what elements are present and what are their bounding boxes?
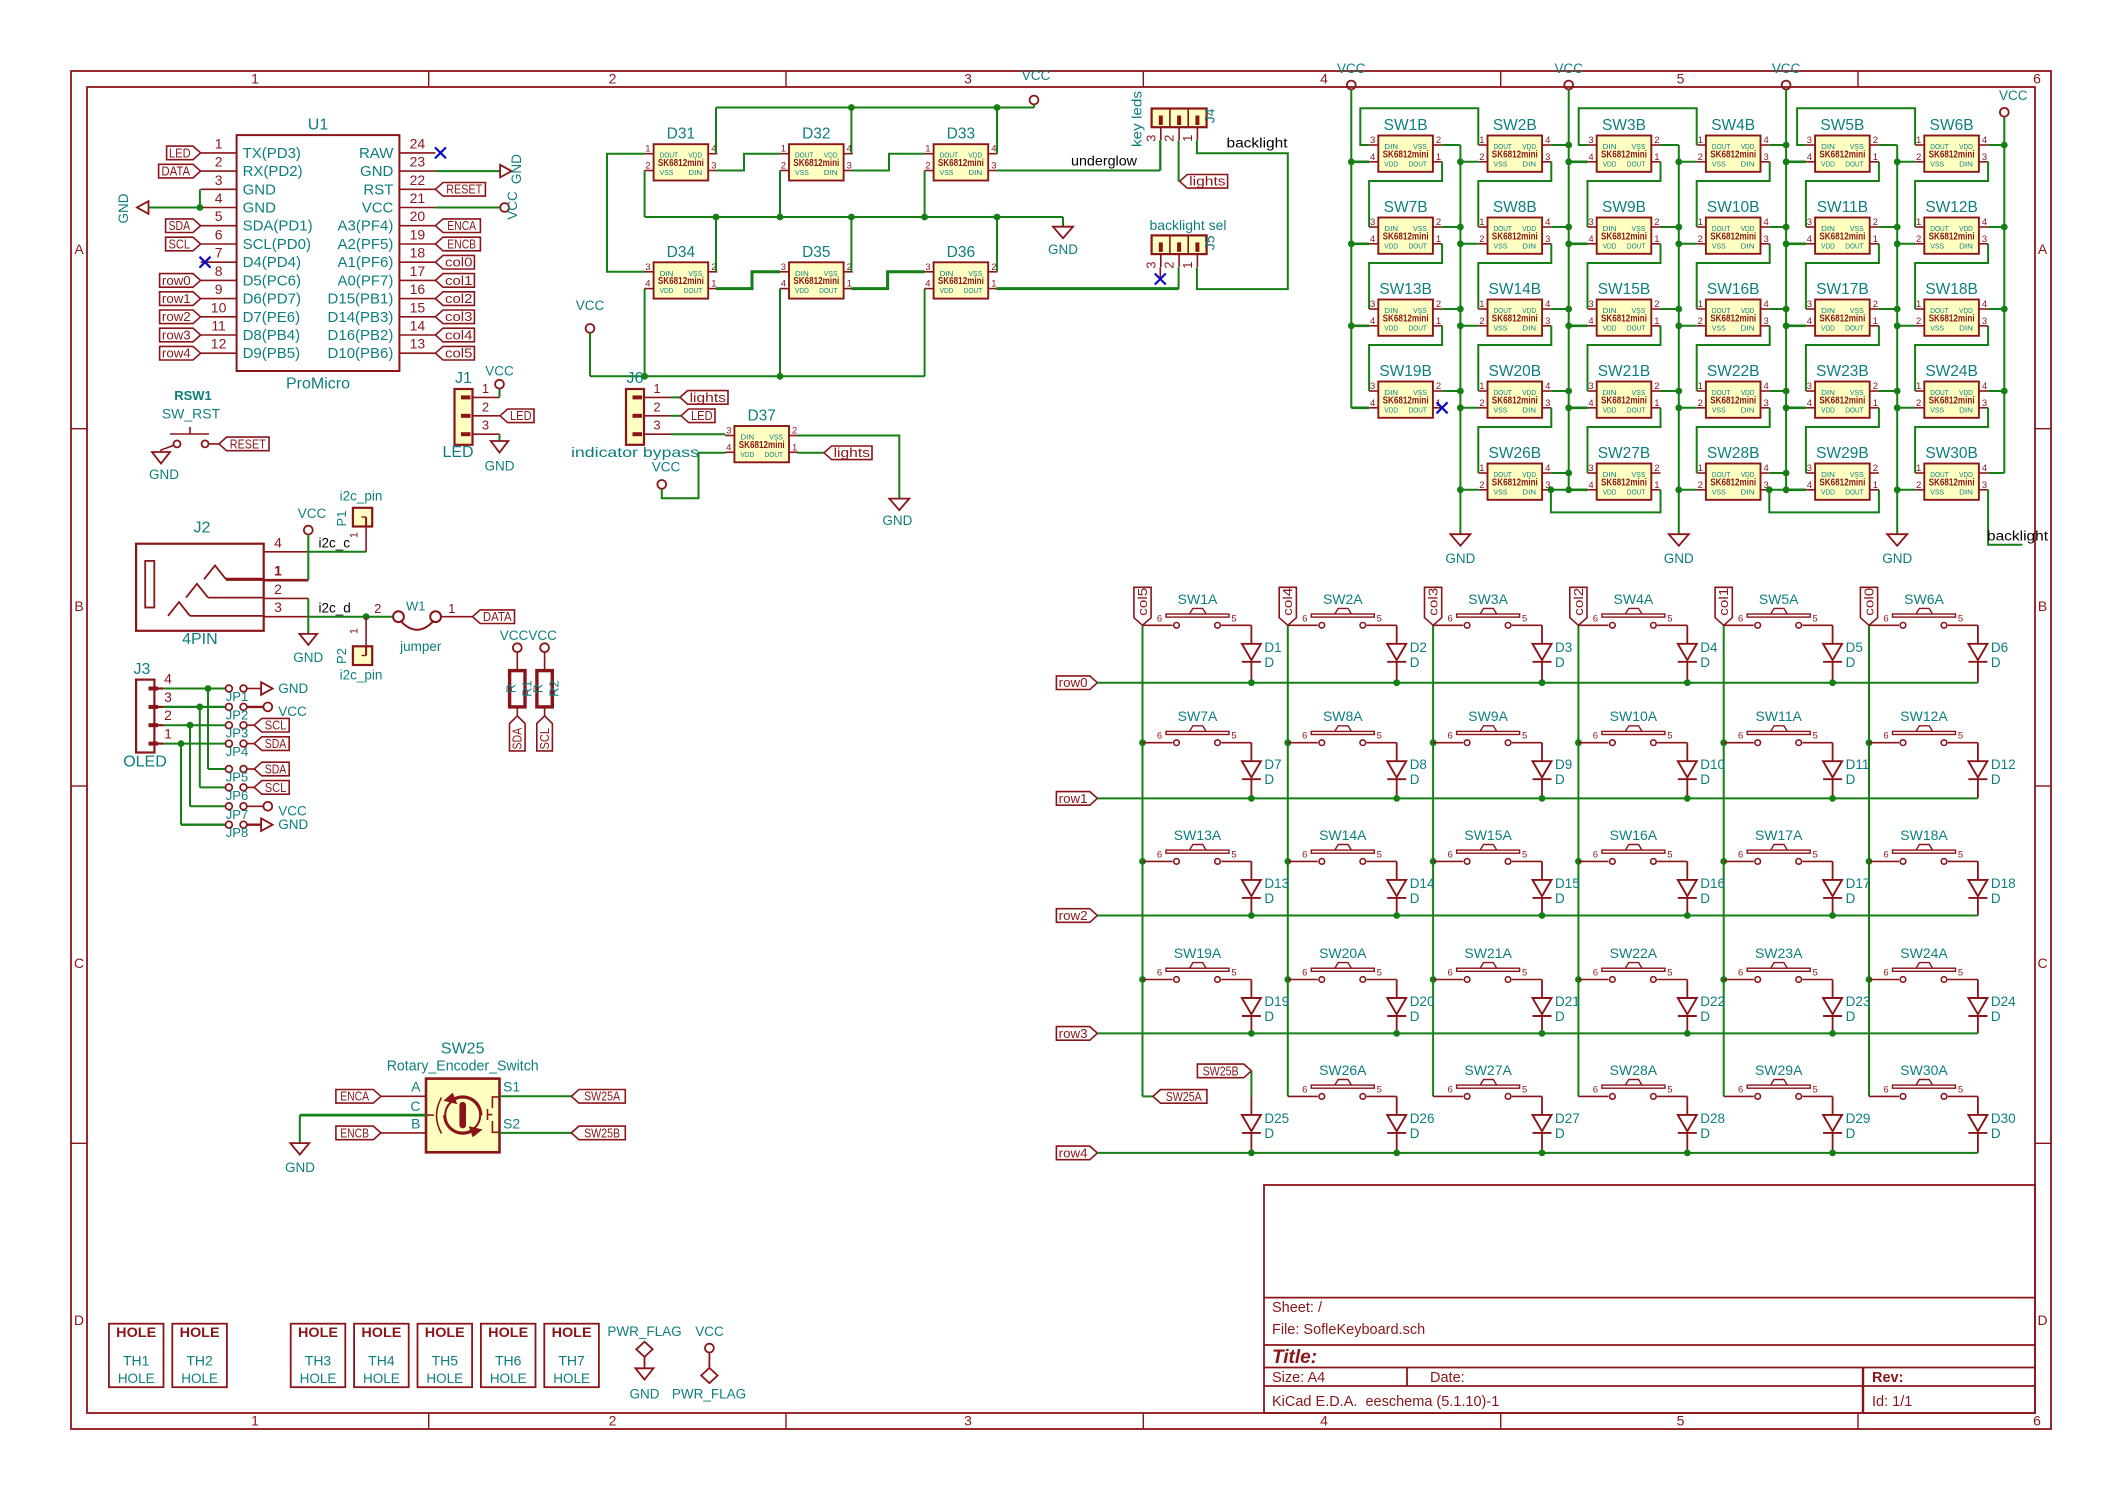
svg-text:DIN: DIN bbox=[1522, 159, 1536, 168]
wire SW26B DOUT to SW20B DIN bbox=[1478, 408, 1551, 473]
svg-text:SDA: SDA bbox=[169, 218, 191, 233]
junction row2 D16 bbox=[1684, 912, 1691, 919]
svg-text:4: 4 bbox=[1588, 234, 1593, 245]
wire U1 pin21 to VCC bbox=[435, 207, 500, 209]
svg-text:1: 1 bbox=[792, 442, 797, 453]
svg-text:Size: A4: Size: A4 bbox=[1272, 1370, 1325, 1386]
svg-text:DOUT: DOUT bbox=[1627, 405, 1646, 414]
svg-text:D24: D24 bbox=[1991, 994, 2016, 1009]
LED SW23B bbox=[1815, 382, 1870, 418]
junction GND rail3 SW6B bbox=[1894, 158, 1901, 165]
wire SW30B DOUT to SW24B DIN bbox=[1915, 408, 1988, 473]
svg-text:DOUT: DOUT bbox=[964, 286, 983, 295]
svg-text:R2: R2 bbox=[547, 680, 562, 697]
svg-text:D35: D35 bbox=[802, 244, 830, 261]
svg-text:18: 18 bbox=[410, 245, 426, 261]
wire SW29B DOUT to SW28B DIN bbox=[1769, 490, 1879, 513]
switch SW23A bbox=[1724, 979, 1754, 981]
svg-text:SW16B: SW16B bbox=[1707, 281, 1760, 298]
svg-text:6: 6 bbox=[1738, 731, 1743, 742]
junction VCC rail4 SW18B bbox=[2001, 306, 2008, 313]
svg-text:1: 1 bbox=[1873, 316, 1878, 327]
svg-text:4: 4 bbox=[1370, 398, 1375, 409]
svg-text:D: D bbox=[1991, 655, 2001, 670]
junction row3 D23 bbox=[1829, 1030, 1836, 1037]
svg-text:VDD: VDD bbox=[1603, 487, 1617, 496]
svg-text:D7(PE6): D7(PE6) bbox=[243, 309, 301, 326]
switch SW9A bbox=[1433, 742, 1463, 744]
wire D36 VDD bbox=[924, 289, 926, 377]
wire D33 VDD bbox=[996, 108, 998, 154]
wire SW8B DOUT to SW2B DIN bbox=[1478, 162, 1551, 227]
svg-text:6: 6 bbox=[1593, 613, 1598, 624]
svg-text:SW6A: SW6A bbox=[1904, 591, 1944, 607]
junction row0 D4 bbox=[1684, 679, 1691, 686]
svg-text:SW15A: SW15A bbox=[1464, 827, 1512, 843]
wire SW22B VDD bbox=[1770, 390, 1786, 392]
svg-text:1: 1 bbox=[349, 628, 361, 634]
wire J4 pin2 to lights bbox=[1178, 140, 1180, 181]
svg-text:3: 3 bbox=[1764, 152, 1769, 163]
svg-text:3: 3 bbox=[645, 262, 650, 273]
svg-text:1: 1 bbox=[1916, 217, 1921, 228]
wire SW21B VSS bbox=[1661, 390, 1679, 392]
wire column col5 bbox=[1142, 625, 1144, 1096]
junction GND rail1 SW8B bbox=[1457, 240, 1464, 247]
svg-text:2: 2 bbox=[1698, 398, 1703, 409]
svg-text:6: 6 bbox=[1738, 849, 1743, 860]
diode D4 bbox=[1686, 625, 1688, 644]
svg-text:D20: D20 bbox=[1410, 994, 1435, 1009]
svg-text:6: 6 bbox=[1593, 731, 1598, 742]
svg-text:TH6: TH6 bbox=[495, 1353, 522, 1369]
wire SW17B VSS bbox=[1879, 308, 1897, 310]
svg-text:R: R bbox=[503, 684, 518, 693]
LED SW29B bbox=[1815, 464, 1870, 500]
diode D1 bbox=[1250, 625, 1252, 644]
svg-text:LED: LED bbox=[510, 408, 532, 423]
wire SW18B DOUT to SW12B DIN bbox=[1915, 244, 1988, 309]
global label col3 (U1 pin15) bbox=[435, 310, 474, 324]
connector J3 OLED body bbox=[136, 680, 154, 753]
wire SW1B VDD bbox=[1351, 161, 1369, 164]
wire row1 bbox=[1097, 797, 1977, 799]
global label lights (J4 pin2) bbox=[1180, 175, 1228, 189]
svg-text:VSS: VSS bbox=[1930, 323, 1944, 332]
svg-text:4: 4 bbox=[1764, 381, 1769, 392]
svg-text:D29: D29 bbox=[1846, 1111, 1871, 1126]
connector J5 (backlight sel) bbox=[1152, 235, 1207, 254]
svg-text:13: 13 bbox=[410, 336, 426, 352]
no-connect SW19B DOUT bbox=[1437, 402, 1448, 413]
junction row1 D10 bbox=[1684, 795, 1691, 802]
U1 pin 22 RST bbox=[399, 188, 435, 190]
J2 pin 4 bbox=[264, 551, 309, 553]
svg-text:key leds: key leds bbox=[1129, 91, 1145, 147]
svg-text:VDD: VDD bbox=[1821, 159, 1835, 168]
svg-text:DIN: DIN bbox=[1522, 241, 1536, 250]
svg-text:2: 2 bbox=[1436, 135, 1441, 146]
wire SW12B VSS bbox=[1897, 243, 1915, 245]
wire JP1 to GND bbox=[247, 688, 261, 690]
global label col2 (matrix top) bbox=[1570, 587, 1587, 625]
junction SW26B DIN bbox=[1548, 486, 1555, 493]
svg-text:VDD: VDD bbox=[1603, 241, 1617, 250]
svg-text:1: 1 bbox=[448, 601, 455, 616]
global label col3 (matrix top) bbox=[1425, 587, 1442, 625]
svg-text:6: 6 bbox=[1157, 613, 1162, 624]
svg-text:DOUT: DOUT bbox=[819, 286, 838, 295]
svg-text:underglow: underglow bbox=[1071, 154, 1137, 169]
svg-text:LED: LED bbox=[169, 145, 191, 160]
svg-text:DIN: DIN bbox=[1959, 159, 1973, 168]
svg-text:6: 6 bbox=[1593, 1084, 1598, 1095]
wire D33 VSS bbox=[924, 171, 926, 218]
svg-text:4: 4 bbox=[215, 190, 223, 206]
svg-text:D: D bbox=[1264, 1126, 1274, 1141]
svg-text:SW30A: SW30A bbox=[1900, 1062, 1948, 1078]
global label DATA (U1 pin2) bbox=[159, 164, 201, 178]
J3 pin 4 bbox=[149, 687, 159, 691]
wire SW20B VSS bbox=[1460, 407, 1478, 409]
svg-text:GND: GND bbox=[278, 817, 308, 832]
svg-text:D: D bbox=[1991, 772, 2001, 787]
LED SW1B bbox=[1378, 136, 1433, 172]
svg-text:21: 21 bbox=[410, 190, 426, 206]
svg-text:1: 1 bbox=[1436, 316, 1441, 327]
svg-text:5: 5 bbox=[1667, 613, 1672, 624]
svg-text:6: 6 bbox=[1302, 1084, 1307, 1095]
svg-text:4: 4 bbox=[1764, 299, 1769, 310]
svg-text:D10: D10 bbox=[1700, 757, 1725, 772]
svg-text:DOUT: DOUT bbox=[1627, 159, 1646, 168]
junction D32 VDD bbox=[848, 104, 855, 111]
wire SW10B DOUT to SW4B DIN bbox=[1697, 162, 1770, 227]
svg-text:VCC: VCC bbox=[485, 364, 514, 379]
svg-text:A: A bbox=[74, 241, 84, 257]
svg-text:HOLE: HOLE bbox=[552, 1325, 592, 1340]
power GND (SW25 C) bbox=[290, 1143, 309, 1155]
wire SW15B VDD bbox=[1569, 324, 1588, 327]
wire VCC bus top row bbox=[716, 107, 1034, 109]
svg-text:2: 2 bbox=[1654, 299, 1659, 310]
wire SW30B VSS bbox=[1897, 489, 1915, 491]
svg-text:GND: GND bbox=[149, 467, 179, 482]
junction row4 D25 bbox=[1248, 1150, 1255, 1157]
svg-text:VSS: VSS bbox=[1930, 241, 1944, 250]
svg-text:TH3: TH3 bbox=[305, 1353, 332, 1369]
wire SW19B VDD bbox=[1351, 406, 1369, 409]
svg-text:D19: D19 bbox=[1264, 994, 1289, 1009]
svg-text:VDD: VDD bbox=[1821, 241, 1835, 250]
svg-text:row4: row4 bbox=[1059, 1145, 1088, 1160]
svg-text:SDA(PD1): SDA(PD1) bbox=[243, 218, 313, 235]
junction J3 pin 3 bbox=[196, 704, 203, 711]
U1 pin 11 D8(PB4) bbox=[201, 334, 237, 336]
switch SW11A bbox=[1724, 742, 1754, 744]
jumper JP6 bbox=[226, 784, 233, 791]
svg-text:2: 2 bbox=[645, 161, 650, 172]
svg-text:Id: 1/1: Id: 1/1 bbox=[1872, 1394, 1912, 1410]
svg-text:TH7: TH7 bbox=[558, 1353, 585, 1369]
svg-text:D37: D37 bbox=[747, 408, 775, 425]
svg-text:4: 4 bbox=[1807, 398, 1812, 409]
switch SW14A bbox=[1288, 860, 1318, 862]
svg-text:VSS: VSS bbox=[940, 168, 954, 177]
svg-text:1: 1 bbox=[847, 279, 852, 290]
svg-text:VSS: VSS bbox=[1930, 159, 1944, 168]
svg-text:SW7A: SW7A bbox=[1178, 708, 1218, 724]
svg-text:C: C bbox=[410, 1098, 420, 1114]
svg-text:SW1B: SW1B bbox=[1384, 117, 1428, 134]
svg-text:1: 1 bbox=[251, 71, 259, 87]
svg-text:col0: col0 bbox=[445, 255, 472, 270]
junction GND rail1 SW26B bbox=[1457, 486, 1464, 493]
svg-text:VDD: VDD bbox=[1821, 323, 1835, 332]
switch SW1A bbox=[1143, 624, 1173, 626]
svg-text:1: 1 bbox=[1479, 463, 1484, 474]
svg-text:col2: col2 bbox=[1571, 588, 1586, 616]
svg-text:2: 2 bbox=[1162, 135, 1177, 142]
svg-text:3: 3 bbox=[1370, 217, 1375, 228]
svg-text:2: 2 bbox=[1479, 398, 1484, 409]
global label col4 (U1 pin14) bbox=[435, 328, 474, 342]
svg-text:JP2: JP2 bbox=[226, 707, 248, 722]
global label ENCB bbox=[336, 1126, 381, 1140]
power GND (J1 pin3) bbox=[491, 441, 509, 453]
svg-text:indicator bypass: indicator bypass bbox=[571, 444, 699, 460]
svg-text:2: 2 bbox=[1479, 234, 1484, 245]
svg-text:D5(PC6): D5(PC6) bbox=[243, 272, 301, 289]
svg-text:SW26B: SW26B bbox=[1489, 445, 1542, 462]
svg-text:6: 6 bbox=[1883, 1084, 1888, 1095]
U1 pin 4 GND bbox=[201, 207, 237, 209]
diode D15 bbox=[1541, 861, 1543, 880]
svg-text:TX(PD3): TX(PD3) bbox=[243, 145, 301, 162]
junction VCC rail1 r1 bbox=[1348, 240, 1355, 247]
svg-text:D8: D8 bbox=[1410, 757, 1427, 772]
U1 pin 3 GND bbox=[201, 188, 237, 190]
svg-text:3: 3 bbox=[1807, 135, 1812, 146]
svg-text:14: 14 bbox=[410, 318, 426, 334]
switch SW13A bbox=[1143, 860, 1173, 862]
LED SW26B bbox=[1488, 464, 1543, 500]
svg-text:1: 1 bbox=[1698, 135, 1703, 146]
global label SCL (R2) bbox=[537, 716, 553, 751]
svg-text:VDD: VDD bbox=[795, 286, 809, 295]
svg-text:5: 5 bbox=[1377, 968, 1382, 979]
wire GND rail 2 bbox=[1678, 145, 1680, 534]
svg-text:row1: row1 bbox=[1059, 791, 1088, 806]
svg-text:2: 2 bbox=[1698, 234, 1703, 245]
svg-text:VDD: VDD bbox=[1821, 405, 1835, 414]
wire J1 pin1 to VCC bbox=[499, 396, 501, 398]
svg-text:1: 1 bbox=[1654, 152, 1659, 163]
junction J3 pin 4 bbox=[205, 685, 212, 692]
resistor R1 bbox=[510, 671, 525, 707]
svg-text:4: 4 bbox=[991, 144, 996, 155]
svg-text:A3(PF4): A3(PF4) bbox=[338, 218, 394, 235]
svg-text:SW1A: SW1A bbox=[1178, 591, 1218, 607]
svg-text:3: 3 bbox=[925, 262, 930, 273]
power VCC (B-grid rail 3) bbox=[1782, 81, 1791, 90]
mount hole TH2 bbox=[172, 1324, 227, 1388]
svg-text:5: 5 bbox=[1522, 1084, 1527, 1095]
wire SW2B VDD bbox=[1551, 144, 1568, 146]
wire VCC down to J2 pin1 bbox=[307, 535, 309, 581]
power VCC (B-grid rail 4) bbox=[2000, 108, 2009, 117]
svg-text:3: 3 bbox=[964, 1413, 972, 1429]
diode D23 bbox=[1832, 980, 1834, 999]
LED SW18B bbox=[1924, 300, 1979, 336]
svg-text:GND: GND bbox=[116, 193, 131, 223]
svg-text:3: 3 bbox=[1588, 217, 1593, 228]
wire D33 DIN to J4 underglow bbox=[996, 170, 1160, 172]
svg-text:row0: row0 bbox=[1059, 675, 1088, 690]
diode D21 bbox=[1541, 980, 1543, 999]
switch SW4A bbox=[1578, 624, 1608, 626]
U1 pin 23 GND bbox=[399, 170, 435, 172]
svg-text:C: C bbox=[74, 955, 84, 971]
wire SW14B VSS bbox=[1460, 325, 1478, 327]
svg-text:6: 6 bbox=[1157, 849, 1162, 860]
svg-text:C: C bbox=[2037, 955, 2047, 971]
svg-text:D: D bbox=[1846, 772, 1856, 787]
svg-text:SW9B: SW9B bbox=[1602, 199, 1646, 216]
svg-text:3: 3 bbox=[1588, 299, 1593, 310]
svg-text:1: 1 bbox=[1698, 299, 1703, 310]
svg-text:D: D bbox=[1700, 1126, 1710, 1141]
junction VCC rail4 SW6B bbox=[2001, 142, 2008, 149]
svg-text:3: 3 bbox=[653, 418, 660, 433]
svg-text:SW12B: SW12B bbox=[1925, 199, 1978, 216]
U1 pin 9 D6(PD7) bbox=[201, 298, 237, 300]
svg-text:2: 2 bbox=[1916, 316, 1921, 327]
svg-text:5: 5 bbox=[1522, 731, 1527, 742]
wire SW27B DOUT to SW26B DIN bbox=[1551, 490, 1661, 513]
wire SW15B VSS bbox=[1661, 308, 1679, 310]
wire SW30B DIN backlight bbox=[1988, 490, 2022, 545]
junction GND rail3 SW24B bbox=[1894, 404, 1901, 411]
switch SW18A bbox=[1869, 860, 1899, 862]
svg-text:B: B bbox=[2038, 598, 2047, 614]
wire D33 DOUT to D32 DIN bbox=[851, 154, 924, 171]
svg-text:1: 1 bbox=[1654, 316, 1659, 327]
svg-text:2: 2 bbox=[215, 154, 223, 170]
svg-text:3: 3 bbox=[1764, 316, 1769, 327]
svg-text:DIN: DIN bbox=[1959, 487, 1973, 496]
svg-text:2: 2 bbox=[1916, 480, 1921, 491]
svg-text:HOLE: HOLE bbox=[363, 1371, 400, 1386]
diode D26 bbox=[1396, 1096, 1398, 1115]
junction col1 row3 bbox=[1720, 976, 1727, 983]
switch SW20A bbox=[1288, 979, 1318, 981]
svg-text:SW11B: SW11B bbox=[1817, 199, 1868, 216]
svg-text:2: 2 bbox=[609, 1413, 617, 1429]
svg-text:ENCB: ENCB bbox=[340, 1125, 369, 1140]
svg-text:HOLE: HOLE bbox=[553, 1371, 590, 1386]
svg-text:SW22B: SW22B bbox=[1707, 363, 1760, 380]
svg-text:1: 1 bbox=[1654, 398, 1659, 409]
wire SW9B VSS bbox=[1661, 226, 1679, 228]
svg-text:4: 4 bbox=[1982, 135, 1987, 146]
svg-text:5: 5 bbox=[1958, 613, 1963, 624]
svg-text:3: 3 bbox=[1807, 463, 1812, 474]
svg-text:SW20B: SW20B bbox=[1489, 363, 1542, 380]
wire JP5 to SDA bbox=[247, 768, 254, 770]
svg-text:RAW: RAW bbox=[359, 145, 394, 162]
LED D34 bbox=[654, 262, 709, 298]
svg-text:6: 6 bbox=[1447, 849, 1452, 860]
svg-text:SW7B: SW7B bbox=[1384, 199, 1428, 216]
svg-text:i2c_c: i2c_c bbox=[319, 536, 351, 551]
svg-text:1: 1 bbox=[1479, 299, 1484, 310]
svg-text:3: 3 bbox=[164, 689, 172, 705]
svg-text:4: 4 bbox=[1764, 463, 1769, 474]
wire JP8 to GND bbox=[247, 824, 261, 826]
svg-text:D12: D12 bbox=[1991, 757, 2016, 772]
svg-text:D31: D31 bbox=[667, 126, 695, 143]
global label col0 (matrix top) bbox=[1860, 587, 1877, 625]
junction VCC rail1 r0 bbox=[1348, 158, 1355, 165]
svg-text:Sheet: /: Sheet: / bbox=[1272, 1300, 1323, 1316]
svg-text:D: D bbox=[1700, 891, 1710, 906]
global label SDA (R1) bbox=[510, 716, 526, 751]
wire J2 pin2 to GND bbox=[307, 598, 309, 634]
U1 pin 19 A2(PF5) bbox=[399, 243, 435, 245]
svg-text:D36: D36 bbox=[947, 244, 975, 261]
wire SW11B DOUT to SW17B DIN bbox=[1806, 244, 1879, 309]
svg-text:D9: D9 bbox=[1555, 757, 1572, 772]
global label SW25B (S2) bbox=[571, 1126, 625, 1140]
connector J2 4PIN jack body bbox=[136, 544, 264, 631]
svg-text:SCL(PD0): SCL(PD0) bbox=[243, 236, 311, 253]
wire J3 pin 4 to JP1 bbox=[163, 688, 225, 690]
svg-text:GND: GND bbox=[485, 459, 515, 474]
LED SW10B bbox=[1706, 218, 1761, 254]
svg-text:SW16A: SW16A bbox=[1610, 827, 1658, 843]
diode D19 bbox=[1250, 980, 1252, 999]
power GND (B-grid rail 2) bbox=[1669, 534, 1689, 546]
diode D25 bbox=[1242, 1115, 1261, 1131]
svg-text:6: 6 bbox=[1883, 613, 1888, 624]
wire top loop SW1B-SW2B bbox=[1360, 108, 1478, 145]
junction col0 row2 bbox=[1866, 858, 1873, 865]
svg-text:D16: D16 bbox=[1700, 876, 1725, 891]
U1 pin 24 RAW bbox=[399, 152, 435, 154]
svg-text:1: 1 bbox=[925, 144, 930, 155]
svg-text:VDD: VDD bbox=[1384, 405, 1398, 414]
wire J3 pin 1 to JP8 bbox=[180, 744, 182, 825]
svg-text:HOLE: HOLE bbox=[116, 1325, 156, 1340]
svg-text:SW2A: SW2A bbox=[1323, 591, 1363, 607]
svg-text:3: 3 bbox=[711, 161, 716, 172]
svg-text:SCL: SCL bbox=[265, 780, 287, 795]
junction GND rail1 SW2B bbox=[1457, 158, 1464, 165]
global label row4 (matrix) bbox=[1056, 1146, 1097, 1160]
diode D16 bbox=[1686, 861, 1688, 880]
svg-text:SDA: SDA bbox=[510, 728, 525, 750]
svg-text:3: 3 bbox=[1807, 217, 1812, 228]
svg-text:5: 5 bbox=[1667, 968, 1672, 979]
wire column col3 bbox=[1432, 625, 1434, 1096]
power VCC (underglow top) bbox=[1030, 96, 1039, 105]
global label LED (J6 pin2) bbox=[681, 409, 715, 423]
svg-text:3: 3 bbox=[1370, 299, 1375, 310]
svg-text:5: 5 bbox=[1377, 849, 1382, 860]
svg-text:11: 11 bbox=[211, 318, 226, 334]
svg-text:SW17B: SW17B bbox=[1816, 281, 1869, 298]
